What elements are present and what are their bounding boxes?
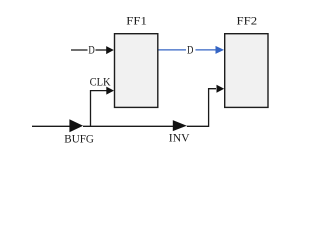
svg-text:FF1: FF1 — [126, 15, 147, 27]
svg-text:CLK: CLK — [90, 76, 112, 88]
arrowhead into FF1 clock pin — [106, 87, 114, 95]
wire Q1 to D2 blue segment right — [196, 49, 217, 51]
wire INV output to FF2 clock — [187, 89, 216, 127]
inverter INV triangle — [173, 120, 187, 131]
svg-text:D: D — [88, 44, 94, 56]
svg-text:BUFG: BUFG — [64, 133, 94, 145]
wire D input segment right — [96, 49, 108, 51]
flip-flop FF2 — [225, 34, 268, 108]
blue arrowhead into FF2 D pin — [216, 46, 225, 54]
wire Q1 to D2 blue segment left — [159, 49, 187, 51]
wire D input segment left — [71, 49, 88, 51]
wire clock input to BUFG — [32, 125, 70, 127]
wire clock riser to FF1 — [91, 91, 108, 127]
wire BUFG output bus — [83, 125, 174, 127]
svg-text:D: D — [187, 44, 193, 56]
buffer BUFG triangle — [69, 119, 83, 132]
svg-text:INV: INV — [169, 133, 190, 145]
flip-flop FF1 — [115, 34, 158, 108]
arrowhead into FF1 D pin — [106, 46, 114, 54]
svg-text:FF2: FF2 — [237, 15, 258, 27]
arrowhead into FF2 clock pin — [217, 85, 225, 93]
